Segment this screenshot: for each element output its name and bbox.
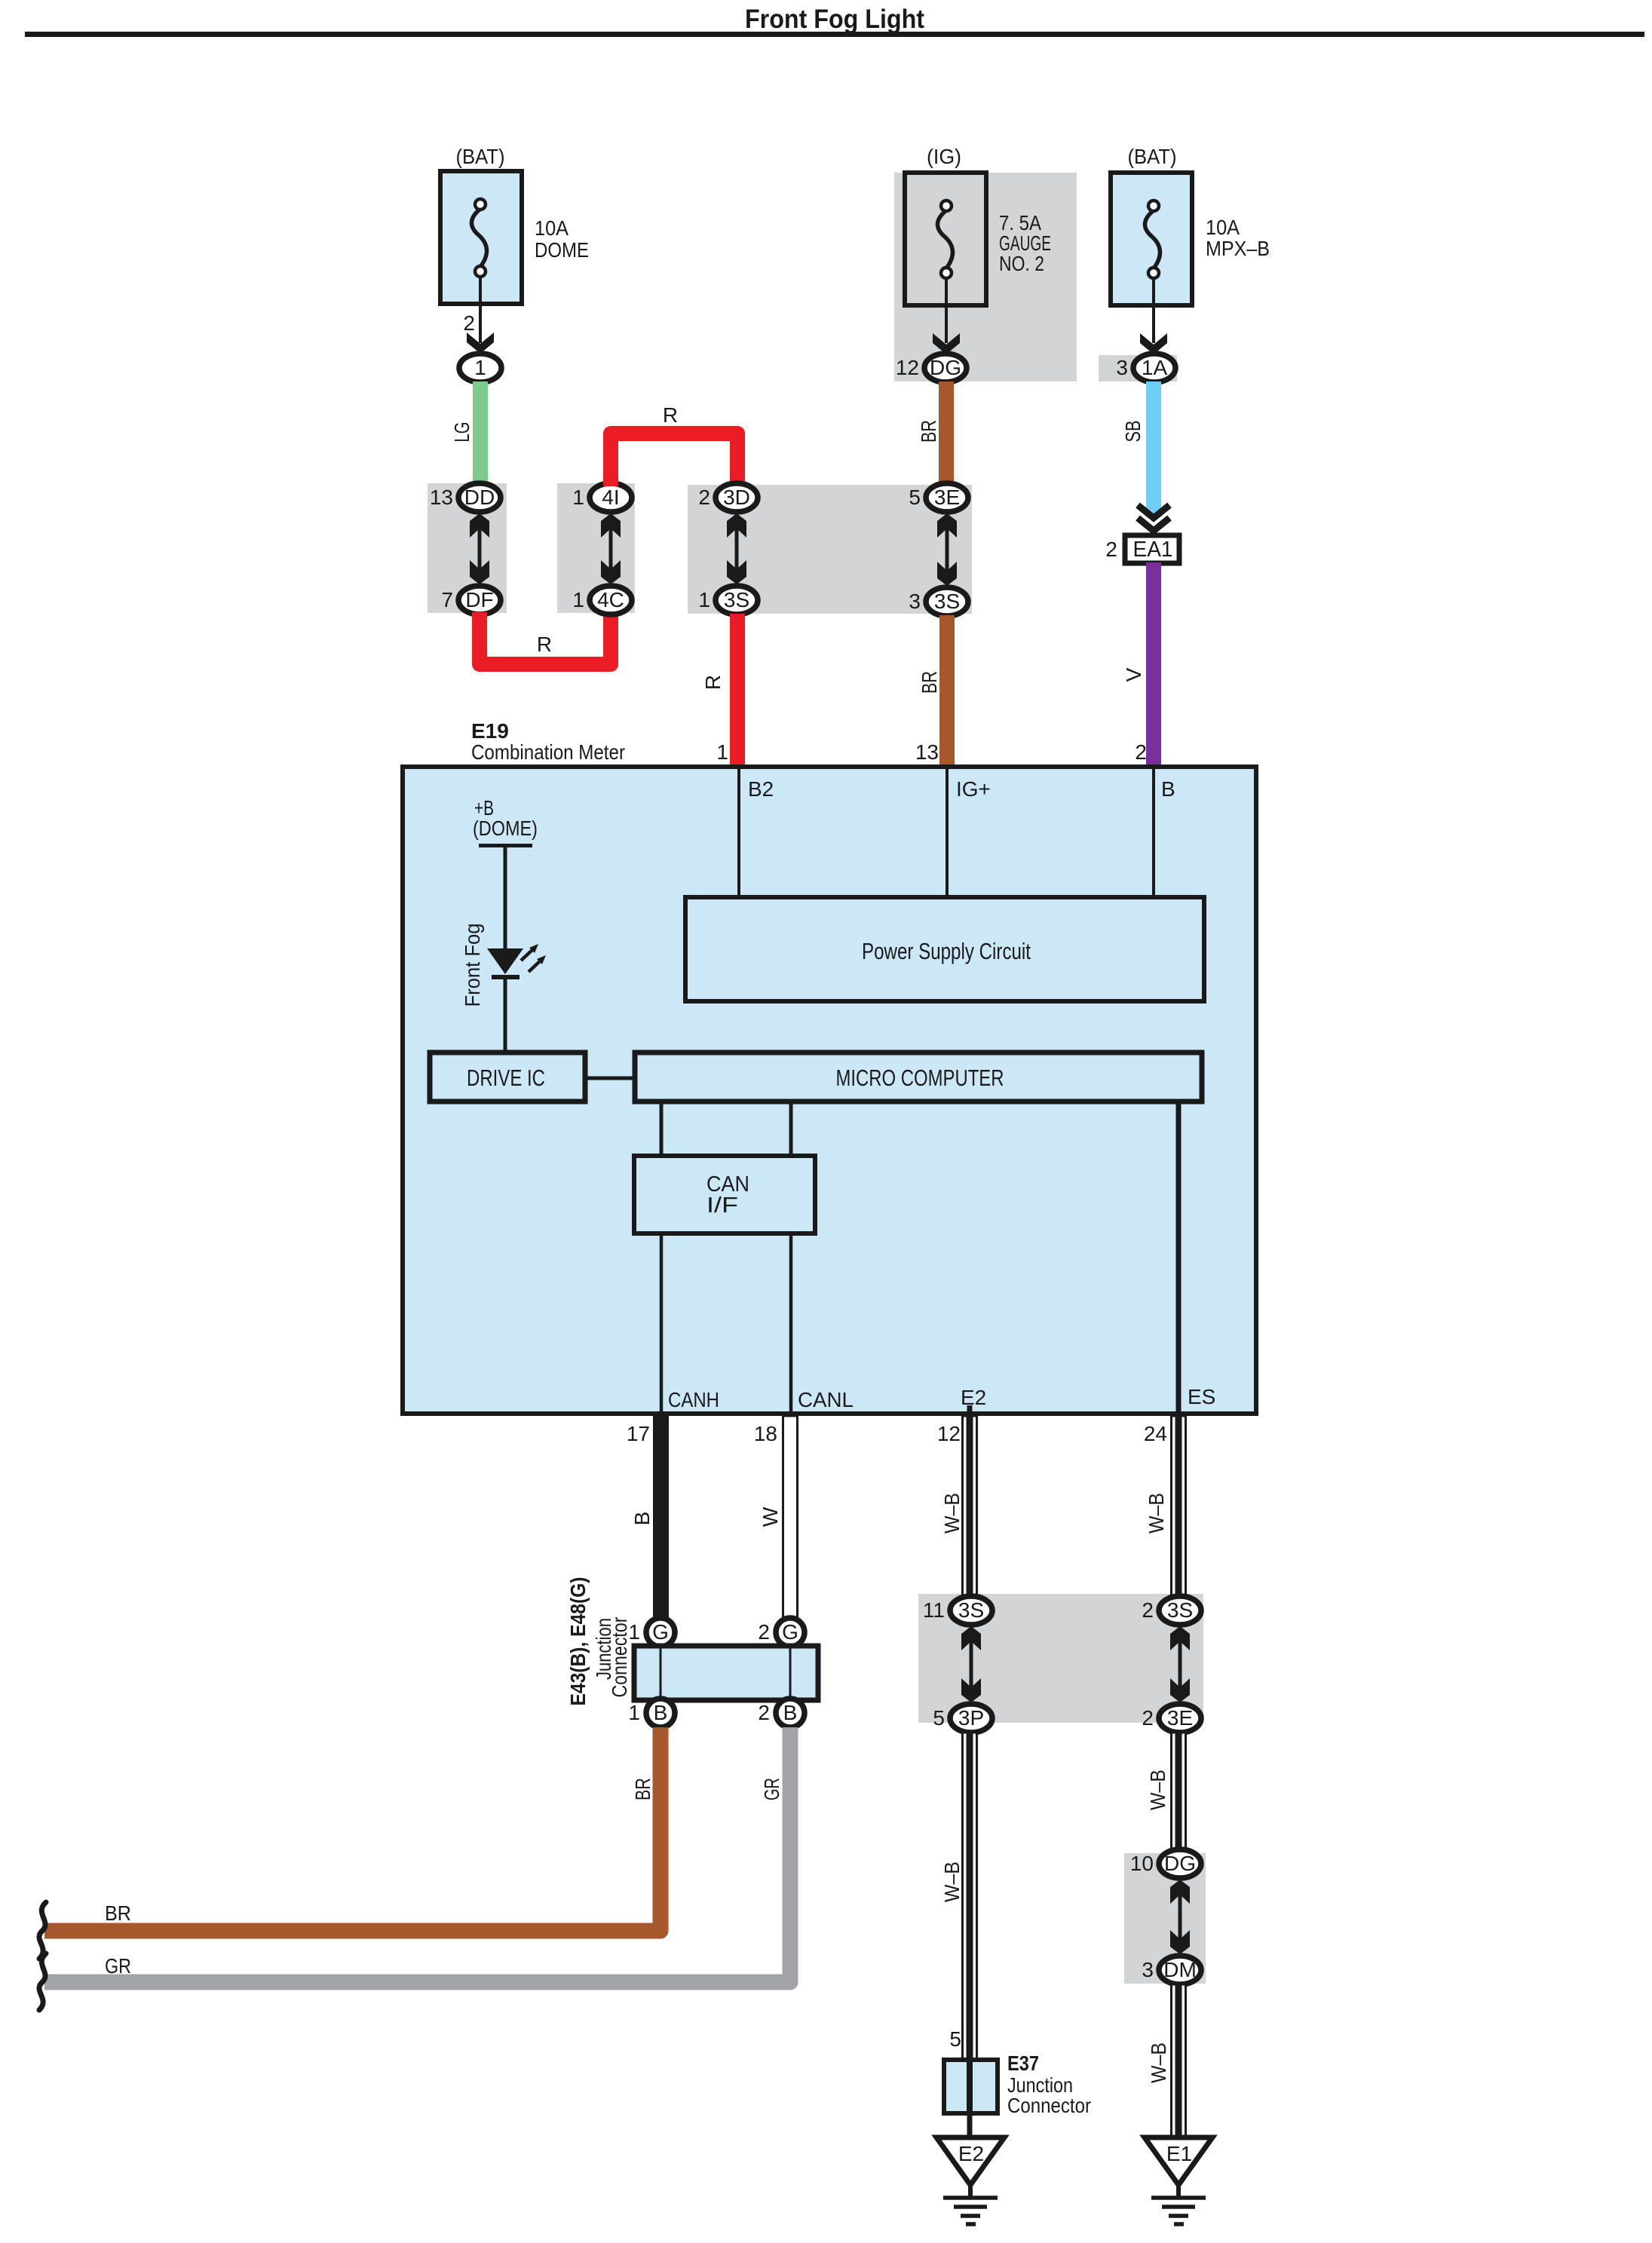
- wire fuse DOME pin 2 to connector 1: [479, 277, 482, 343]
- svg-text:1: 1: [698, 588, 710, 611]
- svg-text:EA1: EA1: [1133, 538, 1173, 562]
- wire W-B meter 24 to 3S: [1172, 1416, 1186, 1596]
- svg-text:BR: BR: [105, 1901, 131, 1925]
- gray panel 3S/3P and 3S/3E connectors: [918, 1594, 1203, 1723]
- svg-text:1: 1: [716, 740, 728, 764]
- svg-text:GR: GR: [105, 1954, 131, 1978]
- svg-text:G: G: [782, 1620, 798, 1644]
- svg-text:1A: 1A: [1142, 356, 1168, 379]
- svg-text:DF: DF: [465, 588, 493, 611]
- svg-text:W–B: W–B: [1147, 2042, 1170, 2083]
- connector 3D pin 2: [698, 483, 758, 512]
- svg-text:B: B: [783, 1701, 798, 1724]
- svg-text:BR: BR: [918, 671, 941, 694]
- connector 3S pin 11: [923, 1596, 992, 1625]
- svg-text:CANL: CANL: [798, 1388, 854, 1411]
- svg-text:E2: E2: [958, 2142, 984, 2165]
- wire fuse MPX-B pin 3 to connector 1A: [1152, 279, 1155, 343]
- svg-text:R: R: [663, 403, 678, 427]
- svg-text:17: 17: [627, 1422, 650, 1445]
- junction connector E43(B),E48(G) box: [634, 1646, 818, 1700]
- svg-text:1: 1: [474, 356, 486, 379]
- svg-text:B: B: [654, 1701, 668, 1724]
- svg-text:3S: 3S: [934, 590, 960, 613]
- svg-text:24: 24: [1144, 1422, 1167, 1445]
- ground E2: [936, 2137, 1004, 2224]
- Front Fog LED indicator: [487, 944, 546, 979]
- DRIVE IC box: [430, 1053, 585, 1102]
- connector 3E pin 5: [909, 483, 968, 512]
- svg-text:13: 13: [430, 486, 453, 509]
- svg-text:GR: GR: [760, 1778, 783, 1800]
- wire W-B 3E to DG: [1172, 1733, 1186, 1849]
- svg-text:(BAT): (BAT): [1128, 145, 1177, 168]
- svg-text:DM: DM: [1163, 1958, 1197, 1981]
- svg-text:ES: ES: [1188, 1385, 1215, 1408]
- header rule: [25, 32, 1644, 37]
- wire W (white) meter 18 to junction G: [783, 1416, 798, 1618]
- connector EA1 pin 2: [1105, 535, 1179, 563]
- svg-text:B: B: [630, 1512, 654, 1526]
- wire W-B meter 12 to 3S: [963, 1416, 977, 1596]
- svg-text:MPX–B: MPX–B: [1206, 237, 1270, 260]
- svg-text:5: 5: [933, 1706, 945, 1730]
- wire fuse GAUGE pin 12 to connector DG: [945, 279, 948, 343]
- svg-text:5: 5: [909, 486, 921, 509]
- svg-text:E19: E19: [471, 719, 509, 743]
- svg-text:IG+: IG+: [956, 777, 991, 801]
- svg-text:I/F: I/F: [706, 1194, 738, 1218]
- svg-text:BR: BR: [631, 1778, 654, 1800]
- svg-text:Power Supply Circuit: Power Supply Circuit: [862, 938, 1031, 964]
- svg-text:Front Fog: Front Fog: [461, 924, 484, 1007]
- wire LG (light green) connector 1 to DD: [473, 381, 488, 484]
- svg-text:1: 1: [572, 486, 584, 509]
- harness break squiggle BR: [39, 1902, 46, 1959]
- svg-text:4I: 4I: [602, 486, 619, 509]
- svg-text:3D: 3D: [723, 486, 750, 509]
- gray panel DG/DM connector: [1124, 1853, 1206, 1984]
- svg-text:Connector: Connector: [608, 1617, 631, 1698]
- svg-text:DOME: DOME: [535, 238, 589, 262]
- svg-text:B2: B2: [748, 777, 774, 801]
- svg-text:1: 1: [628, 1620, 640, 1644]
- svg-text:LG: LG: [450, 422, 474, 443]
- junction connector B pin 2: [758, 1699, 805, 1727]
- svg-text:Combination Meter: Combination Meter: [471, 740, 625, 764]
- svg-text:3: 3: [1116, 356, 1128, 379]
- svg-text:10A: 10A: [1206, 216, 1240, 239]
- svg-text:1: 1: [628, 1701, 640, 1724]
- wire R (red) 3S to combination meter pin 1: [730, 614, 745, 767]
- connector 1 (DOME fuse output): [459, 354, 501, 382]
- twisted-pair arrow 4I-4C: [601, 513, 621, 584]
- svg-text:B: B: [1161, 777, 1175, 801]
- connector 4I pin 1: [572, 483, 632, 512]
- connector 4C pin 1: [572, 586, 632, 614]
- wire R (red) DF to 4C: [480, 612, 611, 664]
- connector 1A pin 3: [1116, 354, 1175, 382]
- twisted-pair arrow 3E-3S: [937, 513, 957, 586]
- connector 3S pin 3: [909, 587, 968, 616]
- fuse 7.5A GAUGE NO.2: [905, 173, 986, 305]
- svg-text:2: 2: [1142, 1598, 1154, 1622]
- svg-text:2: 2: [758, 1620, 770, 1644]
- svg-text:10A: 10A: [535, 216, 569, 240]
- svg-text:2: 2: [758, 1701, 770, 1724]
- svg-text:13: 13: [915, 740, 939, 764]
- wire BR (brown) junction B to harness: [44, 1727, 660, 1931]
- gray strip behind 1A connector: [1099, 355, 1177, 381]
- wire BR (brown) DG to 3E: [939, 381, 954, 485]
- svg-text:11: 11: [923, 1598, 945, 1622]
- twisted-pair arrow 3D-3S: [727, 513, 746, 584]
- svg-text:2: 2: [698, 486, 710, 509]
- svg-text:G: G: [652, 1620, 669, 1644]
- twisted-pair arrow DD-DF: [470, 513, 489, 584]
- svg-text:SB: SB: [1121, 421, 1145, 443]
- svg-text:DG: DG: [930, 356, 961, 379]
- svg-text:3: 3: [909, 590, 921, 613]
- gray panel 3D/3S and 3E/3S connectors: [688, 485, 972, 614]
- svg-text:V: V: [1122, 667, 1145, 682]
- svg-text:DD: DD: [464, 486, 495, 509]
- wire V (violet) EA1 to combination meter pin 2: [1146, 562, 1161, 767]
- svg-text:2: 2: [463, 311, 475, 335]
- svg-text:3S: 3S: [1167, 1598, 1193, 1622]
- svg-text:CANH: CANH: [668, 1388, 719, 1411]
- wire W-B DM to ground E1: [1172, 1984, 1186, 2138]
- gray panel 4I/4C connector: [557, 483, 635, 613]
- gray panel behind IG fuse and DG connector: [894, 173, 1077, 381]
- svg-text:DG: DG: [1164, 1852, 1196, 1875]
- CAN I/F box: [634, 1156, 815, 1233]
- junction connector G pin 1: [628, 1618, 675, 1647]
- svg-text:Connector: Connector: [1007, 2094, 1091, 2117]
- wire BR (brown) 3S to combination meter pin 13: [939, 615, 955, 767]
- svg-text:3E: 3E: [1167, 1706, 1193, 1730]
- svg-text:BR: BR: [917, 420, 940, 443]
- svg-text:(IG): (IG): [927, 145, 961, 168]
- svg-text:E37: E37: [1007, 2051, 1039, 2075]
- connector DG pin 12: [896, 354, 967, 382]
- svg-text:18: 18: [754, 1422, 777, 1445]
- connector 3P pin 5: [933, 1704, 992, 1733]
- svg-text:MICRO COMPUTER: MICRO COMPUTER: [836, 1065, 1004, 1091]
- connector 3S pin 2: [1142, 1596, 1201, 1625]
- svg-text:W–B: W–B: [1146, 1770, 1169, 1810]
- power supply circuit box: [685, 897, 1204, 1001]
- arrow into connector 1A: [1140, 333, 1167, 354]
- CANL internal wire: [789, 1233, 793, 1411]
- junction connector E37 box: [944, 2060, 998, 2113]
- CANH internal wire: [660, 1233, 664, 1411]
- wires MICRO COMPUTER to CAN I/F: [660, 1104, 664, 1156]
- svg-text:2: 2: [1135, 740, 1147, 764]
- wire R (red) 4I to 3D: [611, 434, 737, 486]
- svg-text:3S: 3S: [958, 1598, 984, 1622]
- svg-text:(BAT): (BAT): [456, 145, 505, 168]
- connector 3S pin 1: [698, 586, 758, 614]
- svg-text:R: R: [701, 675, 725, 690]
- wire GR (gray) junction B to harness: [44, 1727, 790, 1982]
- svg-text:Front Fog Light: Front Fog Light: [745, 5, 924, 34]
- connector DD pin 13: [430, 483, 501, 512]
- junction connector G pin 2: [758, 1618, 805, 1647]
- twisted-pair arrow DG-DM: [1170, 1880, 1190, 1954]
- connector DF pin 7: [441, 586, 501, 614]
- svg-text:7: 7: [441, 588, 453, 611]
- link DRIVE IC to MICRO COMPUTER: [587, 1077, 635, 1080]
- connector 3E pin 2: [1142, 1704, 1201, 1733]
- svg-text:2: 2: [1105, 538, 1117, 561]
- svg-text:W–B: W–B: [940, 1862, 964, 1902]
- svg-text:12: 12: [896, 356, 919, 379]
- svg-text:E43(B), E48(G): E43(B), E48(G): [566, 1577, 590, 1706]
- wire LED to DRIVE IC: [504, 979, 507, 1050]
- gray panel DD/DF connector: [428, 483, 507, 613]
- svg-text:10: 10: [1130, 1852, 1154, 1875]
- svg-text:(DOME): (DOME): [473, 817, 538, 840]
- fuse 10A MPX-B: [1111, 173, 1192, 305]
- E2 internal stub: [967, 1405, 973, 1411]
- svg-text:3E: 3E: [934, 486, 960, 509]
- svg-text:W: W: [759, 1506, 782, 1527]
- svg-text:3S: 3S: [724, 588, 749, 611]
- wire W-B 3P to E37: [963, 1733, 977, 2060]
- svg-text:E2: E2: [961, 1386, 986, 1409]
- svg-text:E1: E1: [1166, 2142, 1192, 2165]
- connector DG pin 10: [1130, 1849, 1201, 1878]
- ground E1: [1145, 2137, 1212, 2224]
- arrow into connector DG: [933, 333, 960, 354]
- wire E37 to ground E2: [967, 2113, 973, 2140]
- svg-text:W–B: W–B: [1145, 1493, 1168, 1534]
- twisted-pair arrow 3S-3P: [961, 1626, 981, 1702]
- twisted-pair arrow 3S-3E: [1170, 1626, 1190, 1702]
- svg-text:3: 3: [1142, 1958, 1154, 1981]
- svg-text:NO. 2: NO. 2: [999, 252, 1044, 275]
- combination meter E19 box: [403, 767, 1256, 1414]
- svg-text:R: R: [537, 633, 552, 656]
- ES internal wire: [1176, 1104, 1182, 1411]
- wire B (black) meter 17 to junction G: [653, 1416, 669, 1618]
- junction connector B pin 1: [628, 1699, 675, 1727]
- svg-text:12: 12: [937, 1422, 961, 1445]
- svg-text:3P: 3P: [958, 1706, 984, 1730]
- MICRO COMPUTER box: [635, 1053, 1202, 1102]
- harness break squiggle GR: [39, 1953, 46, 2010]
- connector DM pin 3: [1142, 1956, 1201, 1984]
- svg-text:DRIVE IC: DRIVE IC: [467, 1065, 545, 1091]
- svg-text:2: 2: [1142, 1706, 1154, 1730]
- svg-text:5: 5: [949, 2027, 961, 2051]
- arrow into connector 1: [467, 332, 494, 354]
- svg-text:W–B: W–B: [940, 1493, 964, 1534]
- double chevron into EA1: [1138, 505, 1169, 531]
- svg-text:1: 1: [572, 588, 584, 611]
- svg-text:4C: 4C: [597, 588, 624, 611]
- fuse 10A DOME: [440, 171, 522, 304]
- wire SB (sky blue) 1A to EA1: [1146, 381, 1161, 517]
